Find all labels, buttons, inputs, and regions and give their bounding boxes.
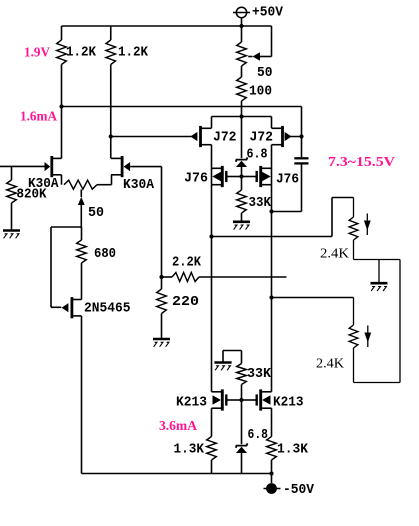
- wire top rail y26: [62, 25, 272, 27]
- node J72 left gate dot: [109, 134, 113, 138]
- svg-text:100: 100: [249, 85, 272, 100]
- wire K30A right drain up: [110, 137, 112, 159]
- resistor 820K: [7, 166, 17, 230]
- wire right output column: [271, 185, 273, 392]
- resistor 2.4K first: [349, 198, 358, 260]
- resistor 680: [77, 227, 87, 300]
- svg-text:-50V: -50V: [283, 483, 315, 498]
- node left output dot: [209, 234, 213, 238]
- node bottom rail dot: [269, 471, 273, 475]
- wire right column down: [354, 260, 401, 383]
- arrow current first: [364, 214, 371, 236]
- svg-text:820K: 820K: [17, 188, 48, 203]
- arrow current second: [364, 326, 371, 348]
- svg-text:2N5465: 2N5465: [84, 302, 131, 317]
- resistor 1.3K left: [207, 408, 217, 473]
- svg-text:33K: 33K: [247, 367, 272, 382]
- node supply junction dot: [239, 24, 243, 28]
- svg-text:50: 50: [257, 66, 273, 81]
- wire rail B y116.5 J72 drains: [212, 117, 272, 129]
- resistor 100: [237, 77, 247, 117]
- resistor 1.2K right: [106, 26, 116, 137]
- wire J72 sources down: [212, 145, 272, 165]
- wire output rail to 2.4K first: [212, 198, 354, 237]
- svg-text:3.6mA: 3.6mA: [159, 419, 198, 434]
- svg-text:2.4K: 2.4K: [320, 247, 349, 262]
- svg-text:1.2K: 1.2K: [118, 46, 149, 61]
- ground under 220: [153, 338, 170, 341]
- ground under 820K: [3, 229, 20, 232]
- svg-text:J76: J76: [184, 172, 208, 187]
- svg-text:1.9V: 1.9V: [24, 46, 50, 61]
- svg-text:1.3K: 1.3K: [277, 443, 309, 458]
- resistor 2.2K (horizontal): [162, 273, 287, 282]
- ground under 33K upper: [233, 221, 250, 224]
- svg-text:7.3~15.5V: 7.3~15.5V: [328, 155, 395, 170]
- node K213 gates dot: [239, 398, 243, 402]
- svg-text:33K: 33K: [249, 196, 272, 211]
- capacitor C comp: [272, 107, 309, 212]
- node rail A left dot: [59, 104, 63, 108]
- svg-text:1.6mA: 1.6mA: [20, 110, 58, 125]
- power -50V symbol: [264, 474, 281, 494]
- svg-text:J72: J72: [213, 131, 237, 146]
- diode zener 6.8 lower: [236, 400, 248, 474]
- wire K30A right gate column down: [161, 167, 163, 277]
- wire bottom rail: [82, 473, 272, 475]
- ground lower 33K: [214, 361, 231, 364]
- transistor K213 right (N-MOSFET): [242, 389, 272, 410]
- ground right side: [371, 282, 388, 285]
- svg-text:+50V: +50V: [252, 5, 284, 20]
- wire 2N5465 source down to bottom rail: [81, 316, 83, 474]
- svg-text:1.3K: 1.3K: [174, 443, 205, 458]
- transistor J72 left (P-JFET): [111, 126, 212, 147]
- resistor 33K lower: [223, 351, 246, 401]
- svg-text:680: 680: [94, 247, 116, 262]
- resistor 2.4K second: [272, 298, 358, 383]
- svg-text:1.2K: 1.2K: [66, 46, 97, 61]
- wire K30A left drain to rail: [61, 107, 63, 159]
- wire cs junction to gate loop: [51, 227, 81, 307]
- svg-text:K30A: K30A: [123, 178, 155, 193]
- wire left output column: [211, 185, 213, 392]
- potentiometer 50 source (horizontal): [62, 175, 112, 227]
- trimmer 50 top (pot): [237, 26, 272, 77]
- svg-text:J72: J72: [250, 131, 274, 146]
- transistor J76 right (P-MOSFET): [242, 165, 272, 187]
- svg-text:220: 220: [172, 295, 199, 310]
- diode zener 6.8 upper: [236, 117, 248, 177]
- node 2.2K left dot: [159, 275, 163, 279]
- node rail B center dot: [239, 114, 243, 118]
- node right cap dot: [269, 295, 273, 299]
- svg-text:6.8: 6.8: [247, 148, 268, 163]
- svg-text:50: 50: [88, 206, 104, 221]
- resistor 220: [157, 277, 167, 338]
- resistor 33K upper: [237, 177, 247, 222]
- wire mid node to ground and right column: [354, 260, 401, 283]
- power +50V symbol: [233, 7, 250, 26]
- resistor 1.3K right: [267, 408, 277, 473]
- svg-text:2.4K: 2.4K: [316, 357, 344, 372]
- svg-text:6.8: 6.8: [248, 428, 269, 443]
- svg-text:2.2K: 2.2K: [172, 256, 202, 271]
- transistor J76 left (P-MOSFET): [212, 165, 242, 187]
- transistor 2N5465 (P-JFET): [62, 297, 82, 318]
- resistor 1.2K left: [57, 26, 67, 107]
- node cap bottom dot: [269, 209, 273, 213]
- wire rail A y106.5 first-stage output: [62, 106, 302, 108]
- wire input left edge: [0, 165, 45, 167]
- svg-text:J76: J76: [276, 173, 299, 188]
- svg-text:K213: K213: [273, 396, 304, 411]
- transistor J72 right (P-JFET): [272, 126, 302, 147]
- node J72 right gate dot: [299, 134, 303, 138]
- transistor K30A left (N-JFET): [45, 156, 62, 177]
- transistor K30A right (N-JFET): [111, 156, 162, 177]
- transistor K213 left (N-MOSFET): [212, 389, 242, 410]
- svg-text:K213: K213: [176, 396, 207, 411]
- node J76 gates dot: [239, 174, 243, 178]
